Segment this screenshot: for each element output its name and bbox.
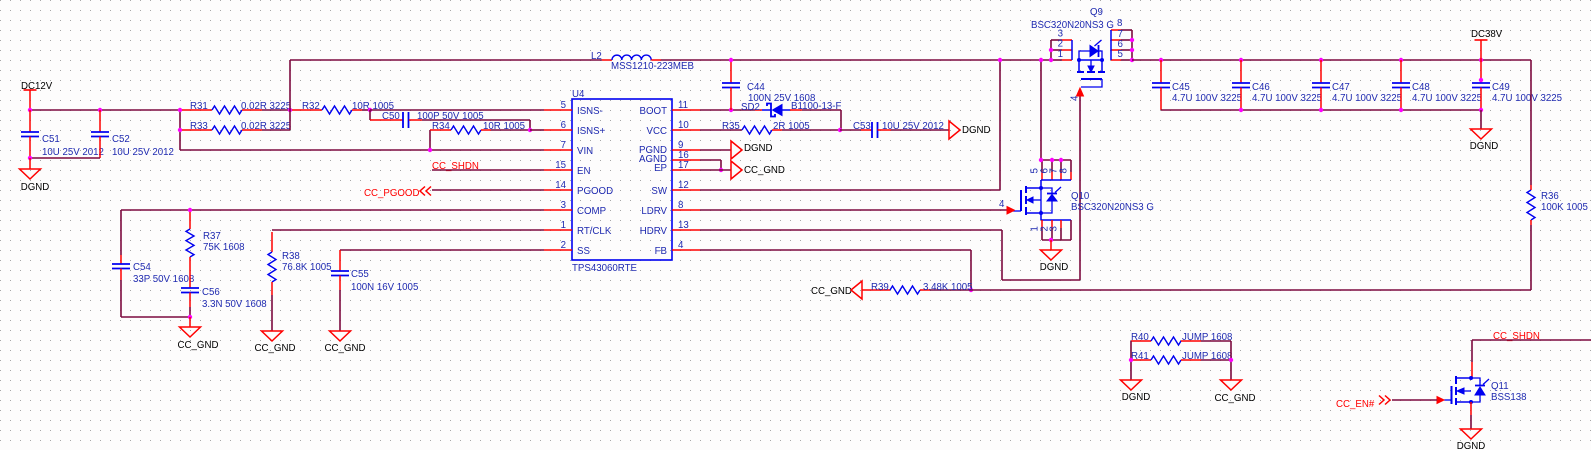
svg-text:HDRV: HDRV <box>640 226 668 237</box>
svg-text:8: 8 <box>1059 168 1070 173</box>
svg-text:DGND: DGND <box>21 182 50 193</box>
svg-text:C53: C53 <box>853 121 871 132</box>
svg-text:R36: R36 <box>1541 191 1559 202</box>
svg-text:R31: R31 <box>190 101 208 112</box>
svg-text:8: 8 <box>678 200 683 211</box>
svg-text:1: 1 <box>561 220 566 231</box>
svg-text:DGND: DGND <box>962 125 991 136</box>
svg-text:4.7U 100V 3225: 4.7U 100V 3225 <box>1492 93 1562 104</box>
svg-text:Q10: Q10 <box>1071 191 1090 202</box>
svg-text:100K 1005: 100K 1005 <box>1541 202 1588 213</box>
svg-text:C54: C54 <box>133 262 151 273</box>
svg-text:MSS1210-223MEB: MSS1210-223MEB <box>611 61 694 72</box>
svg-text:SS: SS <box>577 246 590 257</box>
svg-text:C47: C47 <box>1332 82 1350 93</box>
svg-text:R32: R32 <box>302 101 320 112</box>
svg-text:ISNS-: ISNS- <box>577 106 603 117</box>
svg-text:R38: R38 <box>282 251 300 262</box>
svg-text:CC_PGOOD: CC_PGOOD <box>364 188 419 199</box>
svg-text:11: 11 <box>678 100 688 111</box>
svg-text:3.3N 50V 1608: 3.3N 50V 1608 <box>202 299 267 310</box>
svg-text:8: 8 <box>1117 18 1122 29</box>
svg-text:17: 17 <box>678 160 689 171</box>
svg-text:10R 1005: 10R 1005 <box>483 121 525 132</box>
svg-text:BSS138: BSS138 <box>1491 392 1527 403</box>
svg-text:COMP: COMP <box>577 206 606 217</box>
svg-text:12: 12 <box>678 180 689 191</box>
svg-text:3: 3 <box>1049 226 1060 231</box>
svg-text:C48: C48 <box>1412 82 1430 93</box>
svg-text:DGND: DGND <box>744 143 773 154</box>
svg-text:EP: EP <box>654 163 667 174</box>
svg-text:C46: C46 <box>1252 82 1270 93</box>
svg-text:C55: C55 <box>351 269 369 280</box>
svg-text:5: 5 <box>561 100 566 111</box>
svg-text:76.8K 1005: 76.8K 1005 <box>282 262 332 273</box>
svg-text:10U 25V 2012: 10U 25V 2012 <box>112 147 174 158</box>
svg-text:10U 25V 2012: 10U 25V 2012 <box>42 147 104 158</box>
svg-text:B1100-13-F: B1100-13-F <box>791 101 842 112</box>
svg-text:0.02R 3225: 0.02R 3225 <box>241 121 291 132</box>
svg-text:DGND: DGND <box>1040 262 1069 273</box>
svg-text:4.7U 100V 3225: 4.7U 100V 3225 <box>1172 93 1242 104</box>
svg-text:Q9: Q9 <box>1090 7 1103 18</box>
svg-text:DGND: DGND <box>1122 392 1151 403</box>
svg-text:BOOT: BOOT <box>640 106 668 117</box>
svg-text:CC_EN#: CC_EN# <box>1336 399 1375 410</box>
svg-text:2: 2 <box>561 240 566 251</box>
svg-text:C51: C51 <box>42 134 60 145</box>
svg-text:CC_GND: CC_GND <box>255 343 296 354</box>
svg-text:CC_GND: CC_GND <box>811 286 852 297</box>
svg-text:SD2: SD2 <box>741 102 760 113</box>
svg-text:3: 3 <box>561 200 566 211</box>
svg-text:EN: EN <box>577 166 590 177</box>
svg-text:R34: R34 <box>432 121 450 132</box>
svg-text:DGND: DGND <box>1470 141 1499 152</box>
svg-text:RT/CLK: RT/CLK <box>577 226 612 237</box>
svg-text:ISNS+: ISNS+ <box>577 126 606 137</box>
svg-text:TPS43060RTE: TPS43060RTE <box>572 263 638 274</box>
svg-text:1: 1 <box>1058 49 1063 60</box>
svg-text:5: 5 <box>1118 49 1123 60</box>
svg-text:L2: L2 <box>591 51 602 62</box>
svg-text:CC_GND: CC_GND <box>178 340 219 351</box>
svg-text:4.7U 100V 3225: 4.7U 100V 3225 <box>1412 93 1482 104</box>
svg-text:DGND: DGND <box>1457 441 1486 450</box>
svg-text:4: 4 <box>1070 95 1081 101</box>
svg-text:0.02R 3225: 0.02R 3225 <box>241 101 291 112</box>
svg-text:10: 10 <box>678 120 689 131</box>
svg-text:FB: FB <box>655 246 667 257</box>
svg-text:C45: C45 <box>1172 82 1190 93</box>
svg-text:4.7U 100V 3225: 4.7U 100V 3225 <box>1332 93 1402 104</box>
svg-text:C52: C52 <box>112 134 130 145</box>
svg-text:14: 14 <box>555 180 566 191</box>
svg-text:SW: SW <box>651 186 667 197</box>
svg-text:BSC320N20NS3 G: BSC320N20NS3 G <box>1031 20 1114 31</box>
svg-text:2: 2 <box>1058 39 1063 50</box>
svg-text:R35: R35 <box>722 121 740 132</box>
svg-text:CC_GND: CC_GND <box>325 343 366 354</box>
svg-text:C44: C44 <box>747 82 765 93</box>
svg-text:CC_GND: CC_GND <box>1215 393 1256 404</box>
svg-text:75K 1608: 75K 1608 <box>203 242 244 253</box>
svg-text:4: 4 <box>678 240 684 251</box>
svg-text:C49: C49 <box>1492 82 1510 93</box>
svg-text:13: 13 <box>678 220 689 231</box>
svg-text:4.7U 100V 3225: 4.7U 100V 3225 <box>1252 93 1322 104</box>
svg-text:15: 15 <box>555 160 566 171</box>
svg-text:R39: R39 <box>871 282 889 293</box>
svg-text:100N 16V 1005: 100N 16V 1005 <box>351 282 418 293</box>
svg-text:BSC320N20NS3 G: BSC320N20NS3 G <box>1071 202 1154 213</box>
svg-text:R37: R37 <box>203 231 221 242</box>
svg-text:100P 50V 1005: 100P 50V 1005 <box>417 111 484 122</box>
svg-text:VIN: VIN <box>577 146 593 157</box>
svg-text:U4: U4 <box>572 89 585 100</box>
svg-text:DC38V: DC38V <box>1471 29 1503 40</box>
svg-text:Q11: Q11 <box>1491 381 1509 392</box>
svg-text:VCC: VCC <box>647 126 667 137</box>
svg-text:C50: C50 <box>382 111 400 122</box>
svg-text:6: 6 <box>561 120 566 131</box>
svg-text:CC_GND: CC_GND <box>744 165 785 176</box>
svg-text:4: 4 <box>999 199 1005 210</box>
svg-text:C56: C56 <box>202 287 220 298</box>
svg-text:R33: R33 <box>190 121 208 132</box>
svg-text:PGOOD: PGOOD <box>577 186 613 197</box>
svg-text:7: 7 <box>561 140 566 151</box>
svg-text:3.48K 1005: 3.48K 1005 <box>923 282 973 293</box>
svg-text:LDRV: LDRV <box>641 206 667 217</box>
svg-text:10U 25V 2012: 10U 25V 2012 <box>882 121 944 132</box>
svg-text:33P 50V 1608: 33P 50V 1608 <box>133 274 194 285</box>
